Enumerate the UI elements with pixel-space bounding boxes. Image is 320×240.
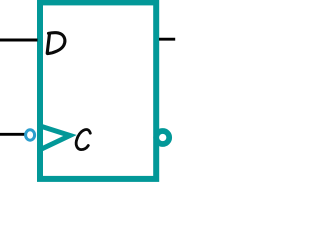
- wire clock input: [0, 133, 25, 136]
- D flip-flop body U1: [40, 2, 156, 179]
- pin label C: [76, 129, 90, 149]
- wire D input: [0, 39, 38, 42]
- pin label D: [47, 33, 65, 54]
- wire Q output: [159, 38, 175, 41]
- inverted output bubble Q': [156, 131, 169, 144]
- clock triangle C: [41, 126, 70, 149]
- clock inversion bubble (negative edge): [26, 130, 35, 140]
